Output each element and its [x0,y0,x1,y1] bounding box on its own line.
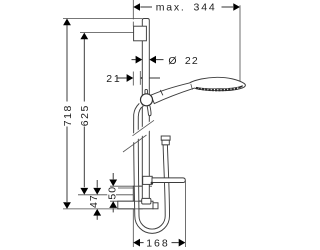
handle grip tick [160,90,163,95]
extension line max344 right [239,5,241,88]
dimension 625 vertical line [83,39,85,187]
head joint line [191,84,193,90]
dimension 47 bottom arrow [96,215,98,219]
break mark line 1 [133,120,155,136]
slider clamp nub [145,89,147,95]
dimension line max344 [140,6,233,8]
dimension 50 bottom arrow [112,208,114,212]
svg-text:21: 21 [106,73,121,85]
extension line bar top (718) [63,18,142,20]
svg-text:47: 47 [88,194,100,208]
arrow 21 right [140,74,147,82]
svg-text:625: 625 [79,104,91,126]
arrow 21 left [127,74,134,82]
break mark band [120,119,154,153]
soap dish dot [151,182,154,185]
arrow 168 right [179,239,186,247]
extension line bracket mid (625) [80,32,134,34]
extension lines over hose leg [134,186,140,209]
svg-text:718: 718 [62,104,74,126]
slider ring [141,94,153,106]
soap dish shelf [152,178,185,183]
dimension 50 top arrow [112,173,114,179]
dimension line 168 [140,242,179,244]
extension line 168 right [184,181,186,247]
extension line C bar bottom [110,200,142,202]
break mark line 2 [123,135,147,152]
outlet lower elbow [118,201,153,209]
bar bottom cap [142,198,151,204]
slide bar [142,19,149,200]
handshower handle and head [151,77,246,103]
dimension line diameter 22 [132,59,164,61]
svg-text:Ø 22: Ø 22 [168,55,199,67]
wall line top [132,0,134,26]
shower hose [134,103,170,233]
arrow d22 right [149,56,156,64]
svg-text:50: 50 [106,186,118,200]
arrow 625 bottom [80,188,88,195]
dimension line 21 [117,77,160,79]
svg-text:max. 344: max. 344 [156,2,217,14]
outlet escutcheon inner [146,189,149,200]
svg-text:168: 168 [146,238,170,250]
soap dish clamp [143,176,153,184]
outlet lower step [153,203,158,209]
arrow d22 left [136,56,143,64]
arrow max344 right [233,3,240,11]
outlet escutcheon [133,186,145,201]
extension stub 21 [139,71,141,85]
dimension 718 vertical line [66,25,68,202]
handshower tail below slider [147,106,151,116]
extension line B outlet mid [78,194,133,196]
arrow 168 left [133,239,140,247]
extension line D outlet bottom [63,208,143,210]
top wall bracket [134,26,147,41]
hose end nut cap [161,136,170,140]
wall line main [132,72,134,248]
dimension 47 top arrow [96,180,98,188]
extension line A soapdish bottom [110,185,152,187]
outlet in-wall pipe line [118,187,133,189]
head nozzles [196,85,243,91]
arrow 718 bottom [63,202,71,209]
arrow max344 left [133,3,140,11]
arrow 718 top [63,19,71,26]
arrow 625 top [80,33,88,40]
hose end nut body [162,140,169,145]
head rim line [196,86,241,88]
